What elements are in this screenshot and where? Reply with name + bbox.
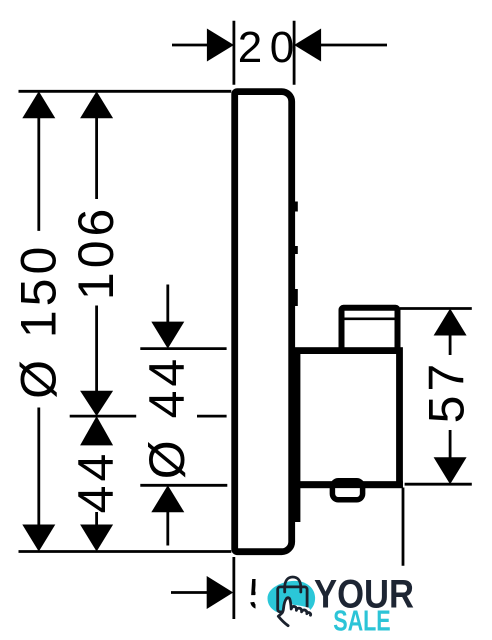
dim57 lower segment <box>449 430 452 459</box>
dim20 left extension line <box>232 21 235 85</box>
dia44 lower tail <box>166 511 169 546</box>
logo hand finger-left and wrist stroke <box>278 599 288 626</box>
hourglass arrow down 106/44 junction <box>80 391 113 416</box>
logo cyan blob <box>267 581 315 616</box>
dia44 bottom extension line <box>140 484 227 487</box>
dim line D150 lower segment <box>37 408 40 527</box>
logo hand white silhouette <box>279 598 311 630</box>
body rear edge extension below <box>294 484 301 522</box>
dim20 right leader line <box>320 44 387 47</box>
handle centre line segment A <box>70 415 137 418</box>
svg-text:44: 44 <box>68 450 124 514</box>
arrow up 106 top <box>80 91 113 118</box>
handle body bottom edge over tab <box>294 481 403 488</box>
logo shopping bag <box>278 587 307 612</box>
escutcheon plate (side view) <box>235 92 292 552</box>
arrow down dim57 bottom <box>434 457 467 484</box>
dim57 bottom extension line <box>405 483 472 486</box>
hourglass arrow up 106/44 junction <box>80 416 113 445</box>
dim line 106 upper segment <box>95 116 98 199</box>
valve housing bumps behind plate right edge <box>294 202 298 307</box>
svg-text:SALE: SALE <box>333 606 391 638</box>
dim20 left leader line <box>172 44 208 47</box>
svg-text:20: 20 <box>238 23 302 72</box>
dim55 hidden right leader line <box>340 591 377 594</box>
dim line D150 upper segment <box>37 116 40 231</box>
bottom tab (temperature stop) <box>332 481 362 500</box>
handle cap (small upper cylinder) <box>342 308 398 353</box>
dia44 upper tail <box>166 285 169 324</box>
logo bag handle <box>285 577 301 592</box>
dim55 left leader line <box>171 591 208 594</box>
handle centre line segment B <box>197 415 227 418</box>
dim57 top extension line <box>400 307 472 310</box>
dim20 right extension line <box>293 21 296 85</box>
handle cap groove line <box>345 317 395 320</box>
arrow left dim55 right (hidden) <box>377 576 404 609</box>
svg-text:57: 57 <box>419 360 475 424</box>
svg-text:106: 106 <box>68 205 124 300</box>
arrow left dim20 right (outside) <box>294 29 321 62</box>
svg-text:Ø 150: Ø 150 <box>11 243 67 399</box>
arrow right dim55 left (outside) <box>207 576 234 609</box>
dim55 left extension line <box>232 557 235 619</box>
logo hand finger-right and knuckles stroke <box>287 598 311 616</box>
dim57 upper segment <box>449 334 452 355</box>
bottom extension line (plate bottom, y=551.5) <box>19 550 232 553</box>
dia44 top extension line <box>140 347 226 350</box>
main handle body <box>297 351 400 485</box>
dim line 44 lower segment <box>95 512 98 526</box>
svg-text:Ø 44: Ø 44 <box>139 355 195 479</box>
top extension line (plate top, y=91.3) <box>19 90 232 93</box>
arrow up D150 top <box>22 91 55 118</box>
arrow down dia44 top (outside) <box>151 322 184 349</box>
arrow down D150 bottom <box>22 525 55 552</box>
dim55 right extension line <box>402 488 405 619</box>
arrow right dim20 left (outside) <box>207 29 234 62</box>
logo white backdrop <box>256 566 447 640</box>
arrow up dim57 top <box>434 309 467 336</box>
dim line 106 middle segment <box>95 306 98 393</box>
arrow down 44 bottom <box>80 525 113 552</box>
arrow up dia44 bottom (outside) <box>151 485 184 512</box>
